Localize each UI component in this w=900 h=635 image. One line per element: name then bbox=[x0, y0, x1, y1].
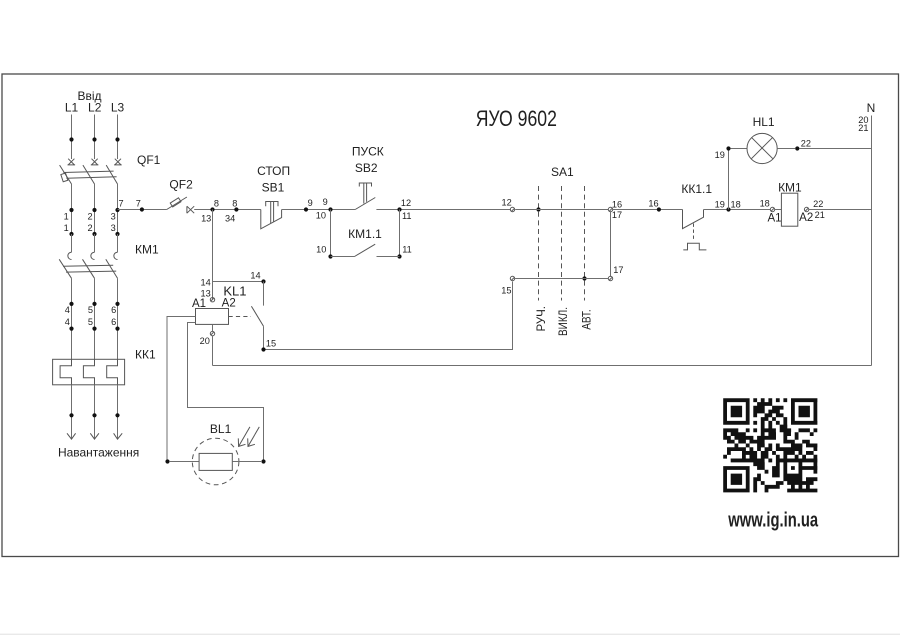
wire QF1 to KM1 pole B bbox=[87, 184, 96, 236]
svg-text:www.ig.in.ua: www.ig.in.ua bbox=[728, 510, 819, 532]
svg-text:21: 21 bbox=[858, 123, 868, 133]
svg-text:9: 9 bbox=[323, 197, 328, 207]
pushbutton SB2 PUSK bbox=[352, 144, 384, 209]
svg-text:КК1: КК1 bbox=[135, 347, 156, 361]
wire QF2 to SB1, nodes 8 and 34 bbox=[194, 198, 261, 223]
terminal 12 on SA1 bbox=[501, 198, 514, 212]
svg-text:ВИКЛ.: ВИКЛ. bbox=[556, 307, 570, 336]
svg-text:11: 11 bbox=[402, 245, 412, 255]
wire KL1 to BL1 right bbox=[188, 323, 264, 462]
wire node 8 to KL1 bbox=[200, 210, 212, 300]
svg-text:SB1: SB1 bbox=[262, 181, 285, 195]
svg-text:11: 11 bbox=[402, 211, 412, 221]
svg-text:8: 8 bbox=[214, 198, 219, 208]
svg-text:L2: L2 bbox=[88, 101, 102, 115]
svg-text:BL1: BL1 bbox=[210, 422, 232, 436]
svg-text:34: 34 bbox=[225, 214, 235, 224]
svg-text:2: 2 bbox=[87, 211, 92, 221]
wire SA1 bottom bbox=[515, 278, 608, 280]
svg-text:5: 5 bbox=[88, 305, 93, 315]
svg-text:1: 1 bbox=[64, 211, 69, 221]
svg-text:15: 15 bbox=[266, 339, 276, 349]
thermal contact KK1.1 bbox=[681, 182, 725, 250]
svg-text:SA1: SA1 bbox=[551, 165, 574, 179]
svg-text:КМ1: КМ1 bbox=[778, 181, 802, 195]
contact KM1.1 bbox=[316, 210, 412, 259]
svg-text:КМ1.1: КМ1.1 bbox=[348, 227, 382, 241]
wire KM1 to KK1 pole B bbox=[88, 278, 97, 359]
svg-text:6: 6 bbox=[111, 317, 116, 327]
svg-text:L3: L3 bbox=[111, 101, 125, 115]
load arrows bbox=[58, 385, 139, 460]
svg-text:КМ1: КМ1 bbox=[135, 242, 159, 256]
node 9 wire SB1 to SB2 bbox=[282, 197, 356, 221]
wire 19 lamp branch bbox=[715, 146, 731, 209]
svg-text:QF2: QF2 bbox=[169, 177, 193, 191]
breaker QF1 bbox=[60, 153, 161, 184]
node 19-18 wire KK1.1 to KM1 coil bbox=[704, 199, 771, 211]
wire phase C input bbox=[115, 115, 119, 160]
svg-text:Навантаження: Навантаження bbox=[58, 445, 139, 459]
wire 21 bottom return bbox=[213, 365, 872, 367]
svg-text:12: 12 bbox=[401, 198, 411, 208]
terminal 17 lower bbox=[608, 265, 623, 281]
coil KM1 bbox=[760, 181, 872, 227]
bottom page edge bbox=[0, 634, 900, 635]
svg-text:10: 10 bbox=[316, 211, 326, 221]
svg-text:3: 3 bbox=[111, 211, 116, 221]
contactor KM1 main contacts bbox=[59, 234, 159, 278]
svg-text:14: 14 bbox=[200, 278, 210, 288]
svg-text:7: 7 bbox=[118, 198, 123, 208]
svg-text:13: 13 bbox=[201, 214, 211, 224]
svg-text:АВТ.: АВТ. bbox=[579, 309, 593, 330]
svg-text:18: 18 bbox=[760, 199, 770, 209]
svg-text:17: 17 bbox=[612, 210, 622, 220]
svg-text:20: 20 bbox=[200, 336, 210, 346]
svg-text:17: 17 bbox=[613, 265, 623, 275]
svg-text:2: 2 bbox=[87, 223, 92, 233]
svg-text:10: 10 bbox=[316, 245, 326, 255]
node 16 wire to KK1.1 bbox=[613, 198, 683, 211]
contact KL1.2 bbox=[251, 282, 276, 352]
svg-text:6: 6 bbox=[111, 305, 116, 315]
node 12 wire SB2 to SA1 bbox=[376, 198, 510, 221]
switch SA1 bbox=[534, 165, 593, 336]
svg-text:14: 14 bbox=[250, 270, 260, 280]
wire phase A input bbox=[69, 115, 73, 160]
QR code www.ig.in.ua bbox=[723, 398, 817, 492]
svg-text:9: 9 bbox=[308, 198, 313, 208]
svg-text:22: 22 bbox=[813, 199, 823, 209]
svg-text:N: N bbox=[867, 101, 876, 115]
svg-text:QF1: QF1 bbox=[137, 153, 161, 167]
svg-text:7: 7 bbox=[136, 198, 141, 208]
svg-text:ПУСК: ПУСК bbox=[352, 144, 384, 158]
svg-text:1: 1 bbox=[64, 223, 69, 233]
svg-text:19: 19 bbox=[715, 199, 725, 209]
border frame bbox=[2, 74, 899, 557]
wire SA1 top bbox=[515, 209, 608, 211]
svg-text:18: 18 bbox=[731, 199, 741, 209]
svg-text:16: 16 bbox=[612, 199, 622, 209]
svg-text:12: 12 bbox=[501, 198, 511, 208]
wire 15 vertical and horizontal bbox=[266, 282, 513, 350]
svg-text:ЯУО 9602: ЯУО 9602 bbox=[476, 106, 557, 131]
svg-text:22: 22 bbox=[801, 139, 811, 149]
terminal 15 on SA1 bbox=[501, 276, 514, 295]
svg-text:РУЧ.: РУЧ. bbox=[534, 306, 548, 332]
svg-text:19: 19 bbox=[715, 150, 725, 160]
node L1 bbox=[65, 89, 102, 115]
svg-text:A2: A2 bbox=[799, 212, 813, 224]
svg-text:4: 4 bbox=[65, 317, 70, 327]
wire phase B input bbox=[92, 115, 96, 160]
pushbutton SB1 STOP bbox=[257, 164, 290, 229]
svg-text:15: 15 bbox=[501, 286, 511, 296]
wire QF1 to KM1 pole A bbox=[64, 184, 74, 236]
svg-text:HL1: HL1 bbox=[753, 115, 775, 129]
wire 17 vertical bbox=[610, 212, 612, 277]
breaker QF2 bbox=[167, 177, 195, 213]
svg-text:21: 21 bbox=[815, 210, 825, 220]
photocell BL1 bbox=[165, 422, 265, 485]
svg-text:SB2: SB2 bbox=[355, 161, 378, 175]
svg-text:3: 3 bbox=[111, 223, 116, 233]
wire KL1 to BL1 left bbox=[167, 317, 196, 462]
svg-text:A1: A1 bbox=[767, 213, 781, 225]
svg-text:16: 16 bbox=[648, 198, 658, 208]
svg-text:КК1.1: КК1.1 bbox=[681, 182, 712, 196]
thermal relay KK1 bbox=[53, 347, 156, 385]
svg-text:A2: A2 bbox=[222, 297, 236, 309]
svg-text:4: 4 bbox=[65, 305, 70, 315]
svg-text:5: 5 bbox=[88, 317, 93, 327]
wire KM1 to KK1 pole A bbox=[65, 278, 74, 359]
svg-text:L1: L1 bbox=[65, 101, 79, 115]
relay KL1 photo relay bbox=[192, 284, 251, 366]
wire KM1 to KK1 pole C bbox=[111, 278, 120, 359]
node N bus bbox=[858, 101, 875, 366]
node 22 lamp to N bbox=[795, 139, 871, 151]
svg-text:8: 8 bbox=[232, 198, 237, 208]
svg-text:СТОП: СТОП bbox=[257, 164, 290, 178]
lamp HL1 bbox=[731, 115, 796, 163]
wire 14 branch to KL1.2 bbox=[213, 270, 266, 283]
node 7 wire pole C to QF2 bbox=[118, 198, 167, 211]
terminal 16-17 on SA1 bbox=[608, 199, 622, 220]
wire QF1 to KM1 pole C bbox=[111, 184, 120, 236]
